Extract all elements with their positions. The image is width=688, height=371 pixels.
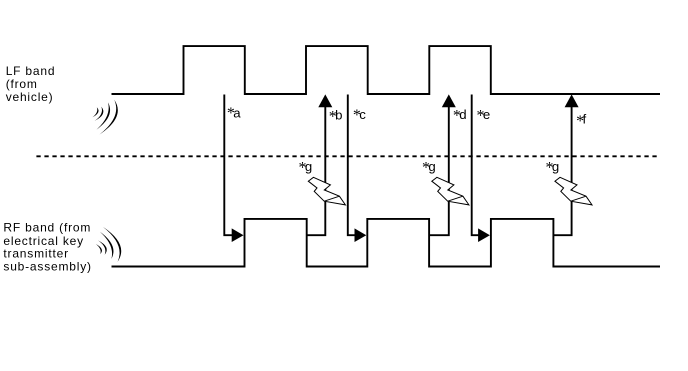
svg-text:b: b [335, 107, 343, 122]
svg-text:g: g [552, 159, 560, 174]
svg-text:transmitter: transmitter [3, 247, 68, 261]
svg-text:sub-assembly): sub-assembly) [3, 260, 91, 274]
svg-text:a: a [233, 105, 241, 120]
svg-text:d: d [459, 107, 467, 122]
svg-text:(from: (from [6, 77, 38, 91]
svg-text:LF band: LF band [6, 64, 56, 78]
svg-text:g: g [428, 159, 436, 174]
svg-text:g: g [305, 159, 313, 174]
svg-text:electrical key: electrical key [3, 234, 84, 248]
svg-text:c: c [359, 107, 366, 122]
svg-text:RF band (from: RF band (from [3, 221, 91, 235]
svg-text:f: f [583, 112, 587, 127]
svg-text:e: e [483, 107, 491, 122]
svg-text:vehicle): vehicle) [6, 90, 54, 104]
